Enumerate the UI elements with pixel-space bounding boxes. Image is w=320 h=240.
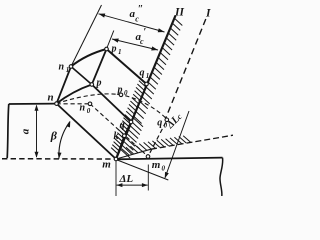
node p: [90, 83, 94, 87]
wire: tool face II: [116, 16, 176, 160]
svg-text:ΔLc: ΔLc: [164, 111, 185, 132]
wire: workpiece right broken edge: [220, 158, 223, 196]
wire: tool flank from m, solid then dashed: [116, 149, 151, 159]
wire: hatching along tool face and flank: [175, 19, 183, 26]
svg-text:q: q: [120, 120, 125, 131]
dimension a: [36, 106, 38, 158]
wire: grid line p-q: [92, 85, 131, 123]
dimension a_c1: [112, 39, 158, 50]
svg-text:ΔL: ΔL: [119, 173, 134, 185]
svg-text:q: q: [140, 67, 145, 78]
wire: grid line p-p1 with extension: [92, 49, 107, 85]
wire: element boundary n1-p: [71, 67, 92, 85]
svg-text:m: m: [152, 159, 161, 171]
svg-text:1: 1: [66, 66, 70, 74]
svg-text:q: q: [157, 117, 162, 128]
node m0: [146, 155, 150, 159]
node n: [55, 102, 59, 106]
svg-text:1: 1: [146, 72, 150, 80]
node q1: [145, 82, 149, 86]
svg-text:′: ′: [143, 27, 146, 38]
node n0: [88, 102, 92, 106]
svg-text:β: β: [50, 129, 58, 143]
svg-text:k: k: [114, 131, 119, 142]
wire: chip outer surface n1-p1 curved: [71, 49, 107, 67]
node K: [123, 134, 127, 138]
wire: dashed line I lower part q0-m0: [149, 122, 166, 155]
svg-text:″: ″: [138, 4, 144, 15]
wire: dashed curve n-p0-q0: [57, 94, 167, 119]
wire: chip outer surface p1-q1: [107, 49, 147, 84]
svg-text:n: n: [80, 103, 86, 114]
svg-text:0: 0: [87, 107, 91, 115]
wire: workpiece top surface: [9, 103, 57, 105]
dimension Delta L_c: [165, 111, 189, 178]
svg-text:a: a: [19, 128, 31, 134]
wire: machined surface: [116, 158, 223, 160]
svg-text:c: c: [135, 15, 139, 24]
wire: thin reference line from m descending right: [116, 160, 168, 181]
wire: grid curve n-p: [57, 85, 92, 104]
node n1: [69, 65, 73, 69]
wire: chip back edge n-n1 with extension: [57, 67, 72, 104]
svg-text:c: c: [140, 37, 144, 46]
wire: workpiece left edge: [7, 104, 9, 158]
svg-text:II: II: [174, 7, 184, 19]
svg-text:I: I: [205, 8, 211, 20]
node m: [114, 157, 118, 161]
svg-text:p: p: [117, 85, 123, 96]
node q: [129, 120, 133, 124]
angle beta arc: [59, 122, 70, 159]
svg-text:0: 0: [124, 89, 128, 97]
svg-text:n: n: [59, 62, 65, 73]
wire: dashed line I initial face position: [166, 19, 206, 119]
node p1: [105, 47, 109, 51]
svg-text:0: 0: [162, 165, 166, 173]
wire: dashed n0-K-m0: [90, 104, 148, 157]
svg-text:p: p: [111, 44, 117, 55]
node q0: [165, 118, 169, 122]
svg-text:p: p: [96, 77, 102, 88]
dimension Delta L: [115, 161, 117, 197]
wire: dashed n-n0: [57, 103, 91, 105]
svg-text:1: 1: [118, 48, 122, 56]
wire: bottom dashed line of cut layer: [2, 158, 116, 160]
dimension a_c2: [99, 14, 165, 32]
svg-text:n: n: [48, 91, 54, 103]
svg-text:m: m: [102, 159, 111, 171]
node p0: [119, 93, 123, 97]
wire: shear plane n-m: [57, 104, 117, 159]
wire: stagnant zone boundary q-K-m: [116, 122, 131, 159]
